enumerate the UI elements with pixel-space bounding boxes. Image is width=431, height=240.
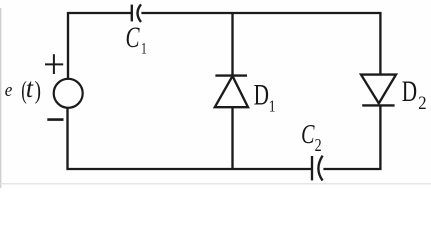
svg-text:e: e — [5, 79, 13, 100]
svg-text:D: D — [254, 78, 269, 111]
scan artifact bottom edge — [0, 183, 431, 184]
capacitor C1 left plate — [131, 5, 133, 22]
svg-text:t: t — [26, 73, 34, 103]
svg-text:): ) — [35, 76, 41, 104]
wire D1 anode to bottom — [231, 107, 233, 169]
svg-text:C: C — [301, 120, 315, 150]
diode D2 triangle — [361, 75, 396, 104]
svg-text:2: 2 — [418, 92, 426, 113]
capacitor C1 right curved plate — [138, 4, 142, 22]
svg-text:D: D — [402, 75, 417, 108]
wire top-right segment — [141, 13, 380, 75]
diode D1 cathode bar — [215, 74, 247, 76]
wire left-bottom segment — [68, 108, 312, 169]
svg-text:1: 1 — [269, 97, 276, 116]
node T junction middle top — [231, 13, 233, 76]
wire bottom-right segment — [323, 106, 380, 169]
polarity plus — [45, 54, 63, 74]
svg-text:1: 1 — [141, 40, 147, 57]
svg-text:C: C — [126, 21, 141, 54]
polarity minus — [47, 118, 63, 121]
diode D2 cathode bar — [362, 104, 394, 106]
capacitor C2 left plate — [311, 156, 313, 180]
voltage source e(t) — [54, 79, 83, 108]
wire top-left segment — [68, 13, 131, 79]
svg-text:2: 2 — [315, 136, 322, 155]
scan artifact left edge — [0, 8, 1, 188]
diode D1 triangle — [215, 76, 248, 107]
capacitor C2 right curved plate — [318, 156, 322, 181]
